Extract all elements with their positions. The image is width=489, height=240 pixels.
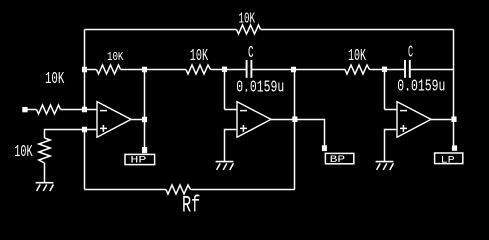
wire row2: R4 to U3 inverting node (370, 69, 385, 71)
node HP row2 tap (142, 67, 147, 73)
node BP output junction (292, 116, 297, 122)
svg-text:Rf: Rf (182, 193, 200, 219)
HP output box (125, 154, 155, 164)
resistor R2 10K (feedback from HP node) (97, 65, 121, 74)
resistor R3 10K (integrator 1 input) (186, 65, 211, 74)
node: U1 noninverting input junction (82, 127, 87, 133)
wire U3 noninverting stub down to ground (385, 130, 398, 162)
svg-text:LP: LP (441, 154, 455, 166)
LP output box (435, 153, 463, 164)
wire row2: HP-sum node to R2 (85, 69, 97, 71)
wire input pad to R1 (28, 109, 37, 111)
svg-text:HP: HP (130, 155, 146, 167)
wire BP node to BP terminal drop (295, 120, 325, 147)
capacitor C1 (integrator 1 feedback) (247, 60, 252, 78)
wire row2: U2 inverting node to C1 (225, 69, 247, 71)
resistor R1 10K (signal input) (37, 105, 61, 114)
wire U2 inverting input drop (224, 70, 226, 110)
node: top-rail tap on input column (82, 67, 87, 73)
wire U3 inverting stub (385, 109, 398, 111)
svg-text:10K: 10K (107, 50, 124, 64)
op-amp U1 (summing amplifier, HP output) (97, 102, 131, 138)
resistor R5 10K (noninverting divider to ground) (39, 138, 50, 163)
op-amp U2 (integrator 1, BP output) (237, 102, 271, 138)
wire row2: C1 to BP column (252, 69, 294, 71)
wire row2: HP output column to R3 (145, 69, 187, 71)
resistor Rf (bottom feedback) (166, 185, 191, 194)
node LP terminal pad (452, 145, 457, 150)
node IN (input terminal pad) (22, 107, 27, 112)
ground GND2 (U2 noninverting input) (216, 162, 234, 170)
svg-text:C: C (408, 42, 413, 61)
wire top feedback rail right segment (261, 29, 454, 31)
wire R1 to U1 inverting node (61, 109, 85, 111)
node: U2 inverting summing junction (222, 67, 227, 73)
node LP output junction (451, 116, 456, 122)
wire top feedback rail left segment (85, 29, 237, 31)
wire HP output column (144, 70, 146, 148)
op-amp U3 (integrator 2, LP output) (397, 102, 431, 138)
ground GND3 (U3 noninverting input) (376, 162, 394, 170)
wire U1 output to HP column (131, 119, 145, 121)
svg-text:C: C (248, 43, 254, 62)
resistor R4 10K (integrator 2 input) (345, 65, 370, 74)
node: U1 inverting input junction (82, 107, 87, 113)
node BP row2 tap (291, 67, 296, 73)
svg-text:10K: 10K (239, 12, 256, 28)
resistor R7 10K (damping feedback, top rail) (237, 25, 261, 34)
wire input column upper (top rail to U1 inverting node) (84, 30, 86, 110)
svg-text:BP: BP (330, 154, 346, 166)
wire U3 output to LP node (431, 119, 454, 121)
BP output box (325, 153, 353, 163)
wire U2 inverting stub (225, 109, 238, 111)
wire U1 noninverting stub (85, 129, 98, 131)
wire U3 inverting input drop (384, 70, 386, 110)
wire row2: U3 inverting node to C2 (385, 69, 405, 71)
wire U1 noninverting node left branch to R5 (45, 130, 85, 139)
node: U3 inverting summing junction (382, 67, 387, 73)
node HP terminal pad (142, 147, 147, 153)
wire BP node riser (row2 to bottom rail) (294, 70, 296, 190)
wire row2: R2 to HP output column (121, 69, 145, 71)
wire row2: BP column to R4 (294, 69, 346, 71)
svg-text:10K: 10K (14, 143, 33, 162)
wire bottom rail right segment (191, 189, 295, 191)
svg-text:10K: 10K (45, 70, 65, 89)
capacitor C2 (integrator 2 feedback) (405, 60, 410, 78)
node HP output junction (142, 117, 147, 123)
wire U2 output to BP node (271, 119, 295, 121)
wire R5 to ground stem (44, 163, 46, 182)
wire LP output column (453, 30, 455, 147)
wire row2: R3 to U2 inverting node (211, 69, 225, 71)
node BP terminal pad (322, 145, 327, 151)
wire row2: C2 to LP column (410, 69, 453, 71)
wire U2 noninverting stub down to ground (225, 130, 238, 162)
wire bottom rail left segment (85, 189, 167, 191)
ground GND1 (below R5) (36, 183, 54, 191)
wire U1 inverting stub (85, 109, 98, 111)
svg-text:10K: 10K (190, 47, 208, 65)
svg-text:0.0159u: 0.0159u (397, 77, 445, 96)
svg-text:10K: 10K (348, 47, 366, 65)
wire U1 noninverting node down to bottom rail (84, 130, 86, 190)
svg-text:0.0159u: 0.0159u (236, 77, 284, 96)
